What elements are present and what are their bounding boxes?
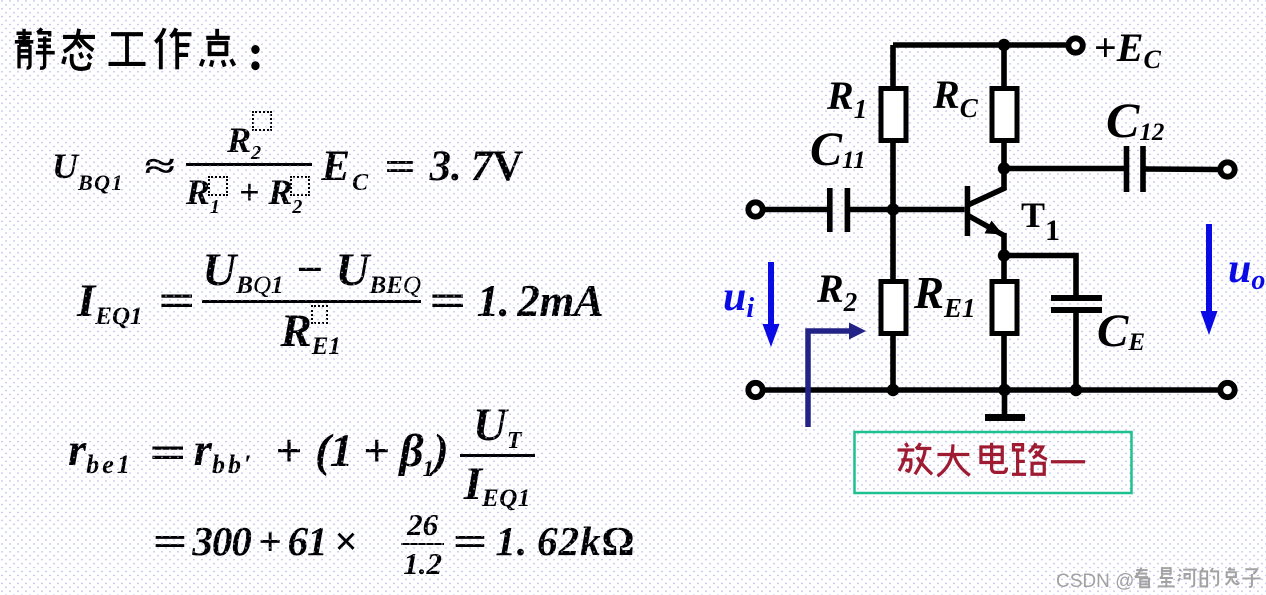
node bottom CE [1070, 384, 1082, 396]
resistor R1 [881, 45, 906, 212]
transistor T1 [965, 186, 1006, 236]
wire input [763, 207, 827, 213]
svg-text:C11: C11 [810, 123, 866, 176]
watermark [1056, 567, 1261, 592]
terminal bottom left [748, 383, 762, 397]
svg-text:C12: C12 [1106, 92, 1164, 148]
capacitor CE [1051, 298, 1102, 390]
box text 放大电路一 [898, 443, 1086, 476]
resistor RC [992, 45, 1017, 190]
capacitor C11 [830, 188, 848, 232]
wire emitter vertical [1001, 233, 1007, 258]
terminal +EC [1068, 38, 1082, 52]
node collector [998, 162, 1010, 174]
wire top rail [893, 42, 1067, 48]
formula r_be1 line 1 [68, 408, 535, 502]
wire output [1146, 166, 1221, 172]
node emitter [998, 249, 1010, 261]
resistor R2 [881, 210, 906, 391]
resistor RE1 (emitter) [992, 256, 1017, 391]
node top rail / RC junction [998, 39, 1010, 51]
arrow ui [763, 262, 780, 347]
svg-text:T1: T1 [1021, 195, 1060, 247]
arrow uo [1201, 224, 1218, 335]
title 静态工作点： [15, 28, 260, 70]
capacitor C12 [1127, 146, 1144, 192]
svg-text:RE1: RE1 [913, 268, 976, 323]
wire collector output [1004, 166, 1124, 172]
node bottom emitter [998, 384, 1010, 396]
node bottom R2 [887, 384, 899, 396]
svg-text:CE: CE [1097, 305, 1145, 357]
svg-text:ui: ui [723, 274, 754, 324]
wire bottom rail [763, 387, 1220, 393]
box amplifier-circuit-1 [855, 432, 1132, 493]
svg-text:uo: uo [1228, 246, 1265, 296]
formula r_be1 line 2 [158, 504, 635, 578]
svg-text:R1: R1 [826, 73, 867, 124]
node base [887, 203, 899, 215]
terminal bottom right [1220, 383, 1234, 397]
svg-text:+EC: +EC [1094, 25, 1161, 74]
formula I_EQ1 [77, 249, 603, 353]
svg-text:R2: R2 [816, 266, 857, 317]
formula U_BQ1 = R2/(R1+R2) EC [52, 103, 523, 229]
terminal input [748, 202, 762, 216]
ground [985, 390, 1025, 418]
svg-text:CSDN @: CSDN @ [1056, 571, 1134, 592]
arrow feedback bent [808, 323, 866, 428]
wire base [850, 207, 965, 213]
svg-text:RC: RC [932, 72, 979, 123]
wire emitter to CE [1004, 256, 1076, 297]
terminal output [1220, 162, 1234, 176]
